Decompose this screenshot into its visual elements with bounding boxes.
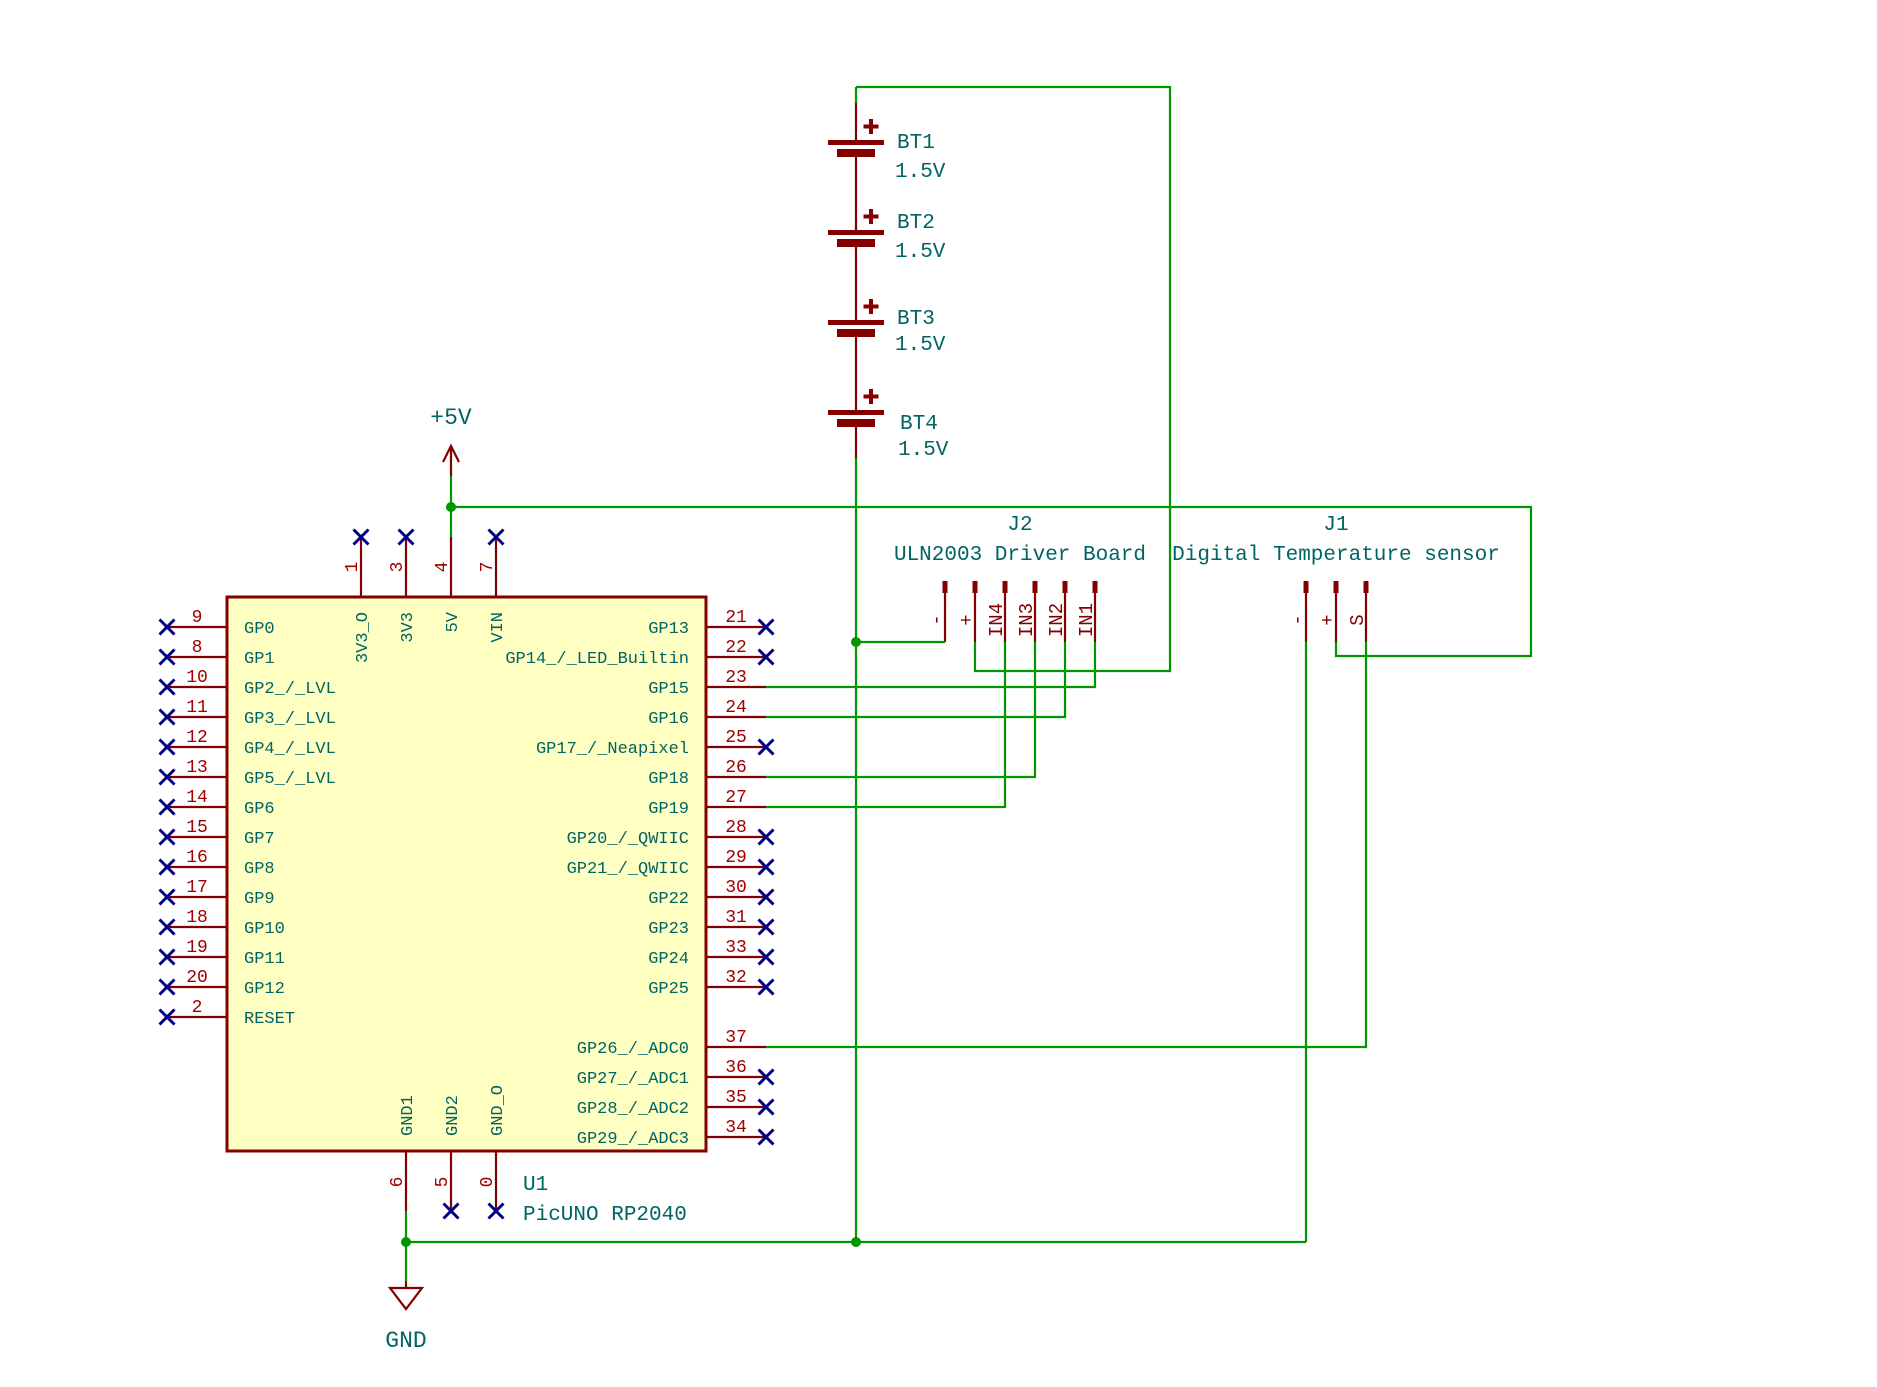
svg-text:0: 0 [478,1177,498,1188]
U1 pin 37 GP26_/_ADC0 (right) [577,1028,766,1059]
U1 pin 23 GP15 (right) [648,668,766,699]
svg-text:30: 30 [725,878,747,898]
J1 pin S [1347,581,1369,642]
svg-text:3: 3 [388,562,408,573]
svg-text:3V3_O: 3V3_O [354,612,373,663]
U1 pin 30 GP22 (right) [648,878,773,909]
junction at 406,1242 [401,1237,411,1247]
svg-text:GND_O: GND_O [489,1085,508,1136]
svg-text:GP13: GP13 [648,620,689,639]
svg-text:GP11: GP11 [244,950,285,969]
svg-text:GP21_/_QWIIC: GP21_/_QWIIC [567,860,689,879]
svg-text:RESET: RESET [244,1010,295,1029]
U1 pin 10 GP2_/_LVL (left) [160,668,336,699]
svg-text:GP16: GP16 [648,710,689,729]
wire J2 minus to battery rail [856,641,945,643]
wire J1 minus to GND rail [1305,642,1307,1242]
battery BT4 [828,389,884,458]
IC U1 PicUNO RP2040 body [227,597,706,1151]
svg-text:GP26_/_ADC0: GP26_/_ADC0 [577,1040,689,1059]
svg-text:S: S [1347,614,1369,625]
svg-text:6: 6 [388,1177,408,1188]
svg-text:16: 16 [186,848,208,868]
svg-text:GP18: GP18 [648,770,689,789]
U1 pin 8 GP1 (left) [160,638,275,669]
U1 pin 3 3V3 (top) [388,530,418,643]
power symbol +5V [443,446,459,476]
svg-text:1.5V: 1.5V [895,334,946,357]
U1 pin 33 GP24 (right) [648,938,773,969]
wire battery top to J2 plus [855,87,857,103]
U1 pin 22 GP14_/_LED_Builtin (right) [505,638,773,669]
svg-text:4: 4 [433,562,453,573]
U1 pin 26 GP18 (right) [648,758,766,789]
svg-text:15: 15 [186,818,208,838]
svg-text:-: - [1287,614,1309,625]
svg-text:IN2: IN2 [1046,603,1068,637]
wire GP15 to J2 IN1 [766,642,1095,687]
svg-text:+: + [956,614,978,625]
svg-text:GP25: GP25 [648,980,689,999]
svg-text:GP8: GP8 [244,860,275,879]
U1 pin 25 GP17_/_Neapixel (right) [536,728,774,759]
J1 pin - [1287,581,1309,642]
svg-text:-: - [926,614,948,625]
svg-text:GP3_/_LVL: GP3_/_LVL [244,710,336,729]
svg-text:10: 10 [186,668,208,688]
svg-text:2: 2 [192,998,203,1018]
svg-text:GP17_/_Neapixel: GP17_/_Neapixel [536,740,689,759]
U1 pin 19 GP11 (left) [160,938,285,969]
wire 5V pin to +5V symbol [450,476,452,537]
svg-text:25: 25 [725,728,747,748]
wire battery bottom rail [855,458,857,1242]
U1 pin 29 GP21_/_QWIIC (right) [567,848,774,879]
U1 pin 14 GP6 (left) [160,788,275,819]
svg-text:23: 23 [725,668,747,688]
svg-text:1: 1 [343,562,363,573]
wire GND1 pin to GND symbol [405,1211,407,1281]
svg-text:BT3: BT3 [897,308,935,331]
U1 pin 31 GP23 (right) [648,908,773,939]
svg-text:GP0: GP0 [244,620,275,639]
svg-text:IN1: IN1 [1076,603,1098,637]
U1 pin 1 3V3_O (top) [343,530,373,664]
svg-text:1.5V: 1.5V [898,439,949,462]
svg-text:22: 22 [725,638,747,658]
J2 pin + [956,581,978,642]
svg-text:5V: 5V [444,611,463,632]
svg-text:1.5V: 1.5V [895,241,946,264]
svg-text:24: 24 [725,698,747,718]
wire GND rail [406,1241,1306,1243]
svg-text:19: 19 [186,938,208,958]
U1 pin 5 GND2 (bottom) [433,1095,463,1218]
svg-text:GP10: GP10 [244,920,285,939]
J1 pin + [1317,581,1339,642]
svg-text:GND1: GND1 [399,1095,418,1136]
svg-text:Digital Temperature sensor: Digital Temperature sensor [1172,544,1500,567]
U1 pin 2 RESET (left) [160,998,296,1029]
U1 pin 7 VIN (top) [478,530,508,643]
svg-text:+5V: +5V [430,405,472,431]
svg-text:GP20_/_QWIIC: GP20_/_QWIIC [567,830,689,849]
svg-text:32: 32 [725,968,747,988]
svg-text:7: 7 [478,562,498,573]
svg-text:GP28_/_ADC2: GP28_/_ADC2 [577,1100,689,1119]
svg-text:GP1: GP1 [244,650,275,669]
U1 pin 32 GP25 (right) [648,968,773,999]
svg-text:20: 20 [186,968,208,988]
svg-text:BT1: BT1 [897,132,935,155]
svg-text:3V3: 3V3 [399,612,418,643]
svg-text:GP29_/_ADC3: GP29_/_ADC3 [577,1130,689,1149]
U1 pin 13 GP5_/_LVL (left) [160,758,336,789]
svg-text:+: + [1317,614,1339,625]
U1 pin 28 GP20_/_QWIIC (right) [567,818,774,849]
svg-text:IN4: IN4 [986,603,1008,637]
svg-text:18: 18 [186,908,208,928]
U1 pin 21 GP13 (right) [648,608,773,639]
svg-text:GP23: GP23 [648,920,689,939]
svg-text:BT4: BT4 [900,413,938,436]
svg-text:33: 33 [725,938,747,958]
junction at 856,642 [851,637,861,647]
U1 pin 20 GP12 (left) [160,968,285,999]
wire GP18 to J2 IN3 [766,642,1035,777]
svg-text:8: 8 [192,638,203,658]
svg-text:GP4_/_LVL: GP4_/_LVL [244,740,336,759]
svg-text:21: 21 [725,608,747,628]
wire GP16 to J2 IN2 [766,642,1065,717]
svg-text:PicUNO RP2040: PicUNO RP2040 [523,1204,687,1227]
U1 pin 17 GP9 (left) [160,878,275,909]
svg-text:28: 28 [725,818,747,838]
svg-text:27: 27 [725,788,747,808]
wire GP19 to J2 IN4 [766,642,1005,807]
wire GP26_ADC0 to J1 S [766,642,1366,1047]
U1 pin 11 GP3_/_LVL (left) [160,698,336,729]
svg-text:14: 14 [186,788,208,808]
U1 pin 36 GP27_/_ADC1 (right) [577,1058,774,1089]
junction at 451,507 [446,502,456,512]
svg-text:GP24: GP24 [648,950,689,969]
U1 pin 24 GP16 (right) [648,698,766,729]
svg-text:11: 11 [186,698,208,718]
U1 pin 15 GP7 (left) [160,818,275,849]
svg-text:5: 5 [433,1177,453,1188]
svg-text:GP9: GP9 [244,890,275,909]
svg-text:34: 34 [725,1118,747,1138]
svg-text:GP14_/_LED_Builtin: GP14_/_LED_Builtin [505,650,689,669]
J2 pin IN1 [1076,581,1098,642]
svg-text:13: 13 [186,758,208,778]
svg-text:GP5_/_LVL: GP5_/_LVL [244,770,336,789]
svg-text:36: 36 [725,1058,747,1078]
svg-text:GP12: GP12 [244,980,285,999]
svg-text:GP19: GP19 [648,800,689,819]
svg-text:31: 31 [725,908,747,928]
U1 pin 35 GP28_/_ADC2 (right) [577,1088,774,1119]
svg-text:GP6: GP6 [244,800,275,819]
junction at 856,1242 [851,1237,861,1247]
svg-text:J2: J2 [1007,514,1032,537]
svg-text:J1: J1 [1323,514,1348,537]
svg-text:GP27_/_ADC1: GP27_/_ADC1 [577,1070,689,1089]
svg-text:1.5V: 1.5V [895,161,946,184]
U1 pin 6 GND1 (bottom) [388,1095,418,1211]
svg-text:GP15: GP15 [648,680,689,699]
svg-text:U1: U1 [523,1174,548,1197]
svg-text:GP22: GP22 [648,890,689,909]
battery BT3 [828,299,884,410]
svg-text:17: 17 [186,878,208,898]
J2 pin IN2 [1046,581,1068,642]
J2 pin IN3 [1016,581,1038,642]
svg-text:35: 35 [725,1088,747,1108]
svg-text:IN3: IN3 [1016,603,1038,637]
svg-text:GP2_/_LVL: GP2_/_LVL [244,680,336,699]
svg-text:VIN: VIN [489,612,508,643]
svg-text:26: 26 [725,758,747,778]
svg-text:9: 9 [192,608,203,628]
svg-text:BT2: BT2 [897,212,935,235]
J2 pin IN4 [986,581,1008,642]
wire +5V rail to J1 plus [451,507,1531,656]
battery BT1 [828,103,884,230]
U1 pin 4 5V (top) [433,537,463,632]
power symbol GND [390,1281,422,1309]
U1 pin 12 GP4_/_LVL (left) [160,728,336,759]
U1 pin 0 GND_O (bottom) [478,1085,508,1219]
U1 pin 16 GP8 (left) [160,848,275,879]
svg-text:GND: GND [385,1328,426,1354]
battery BT2 [828,209,884,320]
J2 pin - [926,581,948,642]
svg-text:ULN2003 Driver Board: ULN2003 Driver Board [894,544,1146,567]
U1 pin 18 GP10 (left) [160,908,285,939]
U1 pin 34 GP29_/_ADC3 (right) [577,1118,774,1149]
U1 pin 9 GP0 (left) [160,608,275,639]
svg-text:29: 29 [725,848,747,868]
svg-text:GND2: GND2 [444,1095,463,1136]
svg-text:37: 37 [725,1028,747,1048]
svg-text:GP7: GP7 [244,830,275,849]
svg-text:12: 12 [186,728,208,748]
U1 pin 27 GP19 (right) [648,788,766,819]
